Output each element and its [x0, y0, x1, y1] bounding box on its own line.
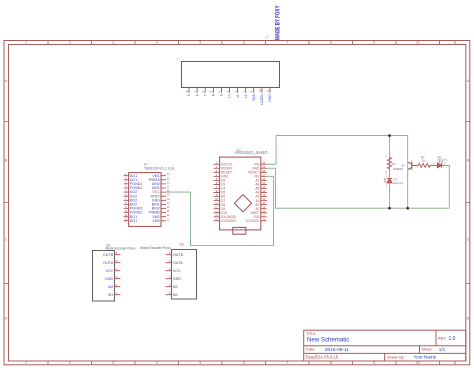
U3 body [172, 250, 197, 300]
svg-text:OUTB: OUTB [103, 253, 114, 257]
title block DrawnBy label [387, 356, 405, 360]
svg-text:4: 4 [156, 41, 158, 45]
connector J1 pin numbers [186, 89, 270, 92]
U3 name label [141, 246, 171, 250]
U2 right pin names [246, 162, 261, 223]
svg-text:2: 2 [69, 361, 71, 365]
title block EasyEDA label [306, 355, 339, 360]
frame zone tick marks right [466, 122, 470, 284]
wire 5V net [166, 176, 273, 245]
title block Sheet value [439, 347, 446, 352]
U3 pin numbers [169, 251, 171, 295]
svg-text:1/1: 1/1 [439, 347, 446, 352]
svg-text:LED-2-1: LED-2-1 [393, 181, 404, 185]
U1 right pin numbers [167, 174, 170, 221]
svg-text:M2: M2 [108, 285, 113, 289]
svg-text:10: 10 [416, 361, 420, 365]
svg-text:SS8050: SS8050 [393, 167, 403, 171]
U1 corner wedge [129, 173, 133, 177]
svg-text:D12/MISO: D12/MISO [221, 219, 237, 223]
U2 body [220, 157, 261, 230]
transistor Q1 [408, 161, 417, 169]
U2 right pins [261, 164, 267, 221]
svg-text:U3: U3 [180, 242, 184, 246]
transistor Q1 labels [393, 164, 405, 171]
svg-text:D13/SCK: D13/SCK [246, 219, 261, 223]
svg-text:5: 5 [187, 94, 191, 96]
svg-text:7: 7 [286, 41, 288, 45]
resistor R1 value [422, 158, 426, 162]
svg-text:3: 3 [112, 41, 114, 45]
U2 name label [235, 150, 268, 155]
wire LED return leg [445, 165, 450, 208]
svg-text:12: 12 [244, 94, 248, 98]
svg-text:8: 8 [330, 361, 332, 365]
U1 left pin names [130, 174, 142, 223]
svg-text:EasyEDA V5.6.15: EasyEDA V5.6.15 [306, 355, 339, 360]
U3 pins [166, 255, 172, 295]
svg-text:GND: GND [173, 277, 182, 281]
U1 left pin numbers [125, 174, 128, 221]
svg-text:5: 5 [199, 361, 201, 365]
svg-text:11: 11 [453, 41, 457, 45]
svg-text:M1: M1 [173, 293, 178, 297]
svg-text:Date:: Date: [306, 348, 315, 352]
svg-text:VDA: VDA [252, 94, 256, 102]
U2 left pin names [221, 162, 237, 223]
svg-text:5: 5 [199, 41, 201, 45]
U1 right pin names [149, 174, 161, 223]
frame zone letters right [467, 79, 470, 321]
LED D1 labels [437, 155, 448, 162]
frame zone numbers bottom [25, 361, 457, 365]
LED D2 vertical [384, 178, 392, 183]
resistor R2 pin marks [386, 155, 388, 174]
svg-text:8: 8 [330, 41, 332, 45]
U2 usb tab [233, 227, 246, 234]
svg-text:OUTA: OUTA [173, 261, 184, 265]
U1 right pins [161, 176, 166, 221]
U1 name label [144, 167, 175, 171]
wire R2 branch vertical [389, 136, 391, 209]
svg-text:M1: M1 [108, 293, 113, 297]
svg-text:TB6612FNG,C,8,EL: TB6612FNG,C,8,EL [144, 167, 175, 171]
U4 pin names [103, 253, 114, 297]
svg-text:M2: M2 [173, 285, 178, 289]
svg-text:2018-08-11: 2018-08-11 [325, 347, 350, 353]
svg-text:VCC: VCC [173, 269, 181, 273]
resistor R1 refdes [421, 156, 425, 160]
U1 left pins [124, 176, 129, 221]
svg-text:Motor Encoder Pinou: Motor Encoder Pinou [141, 246, 171, 250]
svg-text:VM3: VM3 [152, 219, 159, 223]
svg-text:R?: R? [392, 162, 396, 166]
junction at top rail [388, 134, 391, 137]
U4 refdes [106, 243, 110, 247]
U2 refdes [236, 148, 240, 152]
svg-text:9: 9 [220, 94, 224, 96]
svg-text:GND: GND [105, 277, 114, 281]
frame zone numbers top [25, 41, 457, 45]
svg-text:9: 9 [373, 361, 375, 365]
junction at bottom rail right [406, 207, 409, 210]
LED D2 labels [393, 178, 404, 185]
U1 refdes [144, 163, 148, 167]
title block REV value [449, 336, 456, 342]
frame zone tick marks bottom [48, 361, 440, 365]
svg-text:Your Name: Your Name [414, 355, 437, 360]
svg-text:7: 7 [286, 361, 288, 365]
svg-text:OUTA: OUTA [103, 261, 114, 265]
title block REV label [438, 337, 447, 341]
U2 right pin numbers [263, 163, 266, 222]
svg-text:6: 6 [195, 94, 199, 96]
svg-text:LDO/N: LDO/N [260, 94, 264, 105]
U1 body [129, 173, 161, 227]
connector J1 body [182, 62, 280, 88]
U4 pin numbers [116, 251, 118, 295]
frame zone letters left [5, 79, 8, 321]
resistor R2 labels [392, 162, 396, 166]
small rotated note near banner [264, 34, 270, 40]
junction at bottom rail left [388, 207, 391, 210]
svg-text:3: 3 [112, 361, 114, 365]
title block Date value [325, 347, 350, 353]
svg-text:1: 1 [25, 41, 27, 45]
svg-text:VCC: VCC [105, 269, 113, 273]
wire VIN net [267, 136, 408, 209]
connector J1 pin labels [187, 94, 272, 105]
svg-text:Motor Encoder Pinou: Motor Encoder Pinou [106, 246, 136, 250]
svg-text:6: 6 [243, 361, 245, 365]
svg-text:7: 7 [203, 94, 207, 96]
svg-text:9: 9 [373, 41, 375, 45]
svg-text:GND: GND [268, 94, 272, 102]
title block TITLE label [306, 332, 316, 336]
svg-text:Drawn By:: Drawn By: [387, 356, 405, 360]
svg-text:New Schematic: New Schematic [307, 337, 349, 344]
svg-text:U?: U? [176, 57, 180, 61]
svg-text:8: 8 [212, 94, 216, 96]
U2 left pins [214, 164, 220, 221]
title block Sheet label [422, 348, 433, 352]
title block title value [307, 337, 349, 344]
title block DrawnBy value [414, 355, 437, 360]
svg-text:LED-2-1: LED-2-1 [437, 158, 448, 162]
svg-text:Sheet:: Sheet: [422, 348, 433, 352]
svg-text:1.0: 1.0 [449, 336, 456, 342]
LED D2 pin marks [386, 175, 388, 189]
svg-text:10: 10 [228, 94, 232, 98]
svg-text:10: 10 [416, 41, 420, 45]
svg-text:11: 11 [236, 94, 240, 98]
svg-text:6: 6 [243, 41, 245, 45]
U3 refdes [180, 242, 184, 246]
connector J1 faint refdes [176, 57, 180, 61]
title block Date label [306, 348, 315, 352]
svg-text:OUTB: OUTB [173, 253, 184, 257]
svg-text:2: 2 [69, 41, 71, 45]
title block row dividers [304, 346, 466, 354]
U4 pins [114, 255, 120, 295]
resistor R1 pin marks [433, 163, 446, 166]
frame zone tick marks left [4, 122, 9, 284]
wire GND net [267, 168, 449, 208]
transistor Q1 emitter arrow [408, 168, 410, 170]
svg-text:BO1: BO1 [130, 219, 137, 223]
U2 diamond logo [234, 195, 251, 212]
title block outline [304, 330, 466, 361]
svg-text:11: 11 [453, 361, 457, 365]
svg-text:REV.: REV. [438, 337, 447, 341]
resistor R2 vertical [387, 157, 391, 170]
U3 pin names [173, 253, 184, 297]
title block column dividers [385, 330, 436, 361]
LED D1 horizontal [435, 161, 445, 168]
U4 body [93, 251, 115, 302]
U2 left pin numbers [215, 163, 218, 222]
svg-text:ARDUINO_NANO: ARDUINO_NANO [235, 150, 268, 155]
svg-text:1: 1 [25, 361, 27, 365]
svg-text:TITLE:: TITLE: [306, 332, 316, 336]
svg-text:MADE BY FOXY: MADE BY FOXY [275, 6, 281, 41]
frame zone tick marks top [48, 41, 440, 45]
resistor R1 horizontal [417, 163, 435, 167]
U4 name label [106, 246, 136, 250]
MADE BY FOXY banner text [275, 6, 281, 41]
connector J1 pins [189, 87, 270, 93]
svg-text:4: 4 [156, 361, 158, 365]
